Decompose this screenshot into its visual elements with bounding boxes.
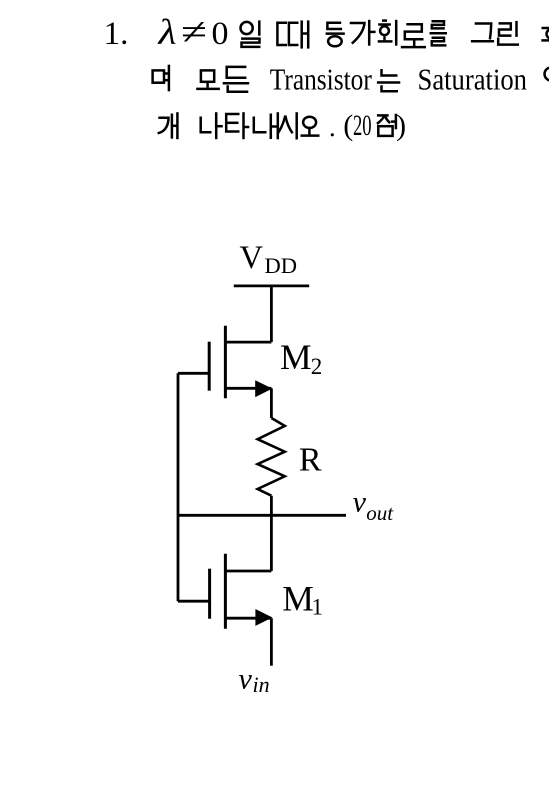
게 <box>158 112 178 139</box>
M1 source arrow <box>255 609 272 626</box>
시 <box>277 112 296 139</box>
가 <box>350 20 376 46</box>
resistor R <box>258 418 285 496</box>
label vin <box>239 663 270 697</box>
영 (clipped) <box>545 68 549 81</box>
VDD rail <box>234 285 309 288</box>
M2 source arrow <box>255 380 272 397</box>
후 (clipped) <box>541 28 549 40</box>
svg-text:≠: ≠ <box>181 12 207 53</box>
M2 drain wire <box>226 341 272 344</box>
회 <box>378 20 397 46</box>
svg-text:v: v <box>353 486 367 519</box>
M2 gate wire <box>178 372 209 375</box>
오 <box>301 117 320 136</box>
내 <box>254 112 278 139</box>
M1 gate wire <box>178 600 210 603</box>
svg-text:1.: 1. <box>104 16 129 52</box>
타 <box>226 112 249 139</box>
transistor M1 <box>178 554 272 629</box>
며 <box>153 65 169 92</box>
때 <box>277 20 308 48</box>
일 <box>241 20 261 47</box>
린 <box>498 21 519 45</box>
를 <box>430 21 448 45</box>
M1 channel bar <box>224 554 227 629</box>
점 <box>377 114 396 136</box>
든 <box>223 67 250 92</box>
svg-text:0: 0 <box>212 16 229 52</box>
svg-text:in: in <box>253 672 270 697</box>
svg-text:1: 1 <box>312 595 324 620</box>
wire M2 source to resistor <box>270 388 273 418</box>
svg-text:Saturation: Saturation <box>418 62 528 97</box>
M2 gate bar <box>208 342 211 391</box>
그 <box>471 24 494 42</box>
svg-text:V: V <box>240 240 264 276</box>
label vout <box>353 486 395 526</box>
wire resistor to M1 drain <box>270 496 273 571</box>
svg-text:(: ( <box>343 109 353 142</box>
svg-text:M: M <box>282 579 314 619</box>
svg-text:20: 20 <box>353 109 372 142</box>
node vout wire <box>178 514 346 517</box>
svg-text:M: M <box>280 337 312 377</box>
label R <box>299 442 322 479</box>
node VDD label <box>240 240 298 278</box>
svg-text:v: v <box>239 663 253 696</box>
label M1 <box>282 579 323 620</box>
나 <box>201 112 223 139</box>
svg-text:R: R <box>299 442 322 479</box>
M2 source wire <box>226 387 272 390</box>
M1 drain wire <box>226 570 272 573</box>
label M2 <box>280 337 322 379</box>
svg-text:DD: DD <box>265 253 298 278</box>
svg-text:λ: λ <box>157 12 176 52</box>
등 <box>326 23 345 47</box>
는 <box>377 69 400 91</box>
wire VDD to M2 drain <box>270 286 273 342</box>
svg-text:2: 2 <box>311 354 323 379</box>
M2 channel bar <box>224 326 227 399</box>
M1 source wire <box>226 617 272 620</box>
모 <box>196 70 220 89</box>
svg-text:): ) <box>396 109 406 142</box>
로 <box>401 24 426 47</box>
svg-text:Transistor: Transistor <box>270 62 373 97</box>
svg-text:out: out <box>366 501 394 525</box>
M1 gate bar <box>208 569 211 619</box>
left feedback wire (gates) <box>177 373 180 601</box>
transistor M2 <box>178 326 272 399</box>
wire M1 source to vin <box>270 618 273 666</box>
